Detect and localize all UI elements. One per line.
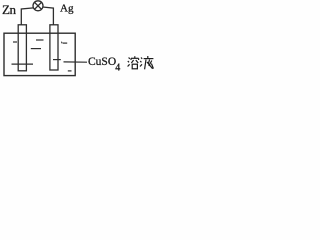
liquid dash f crossing Ag plate bbox=[53, 59, 61, 61]
svg-text:Ag: Ag bbox=[60, 2, 74, 14]
svg-text:CuSO: CuSO bbox=[88, 56, 116, 68]
svg-text:Zn: Zn bbox=[2, 2, 17, 17]
lamp L1 cross stroke 2 bbox=[35, 2, 42, 9]
liquid dash g crossing Zn plate bbox=[12, 63, 34, 65]
label rongye char 液 strokes bbox=[140, 56, 153, 69]
liquid dash h bbox=[68, 70, 72, 72]
wire lamp to Ag electrode bbox=[43, 7, 54, 25]
electrode Zn plate bbox=[18, 25, 26, 71]
beaker with solution bbox=[4, 33, 75, 75]
liquid dash b bbox=[36, 39, 44, 41]
svg-text:4: 4 bbox=[115, 62, 120, 73]
liquid dash a bbox=[13, 41, 17, 43]
liquid tick d bbox=[60, 42, 63, 44]
leader line to CuSO4 label bbox=[64, 61, 88, 63]
liquid dash e bbox=[63, 42, 67, 44]
electrode Ag plate bbox=[50, 25, 58, 70]
liquid dash c bbox=[31, 48, 41, 50]
wire lamp to Zn electrode bbox=[21, 8, 33, 25]
lamp L1 circle bbox=[33, 1, 43, 11]
label rongye char 溶 strokes bbox=[128, 56, 139, 69]
lamp L1 cross stroke 1 bbox=[35, 2, 42, 9]
